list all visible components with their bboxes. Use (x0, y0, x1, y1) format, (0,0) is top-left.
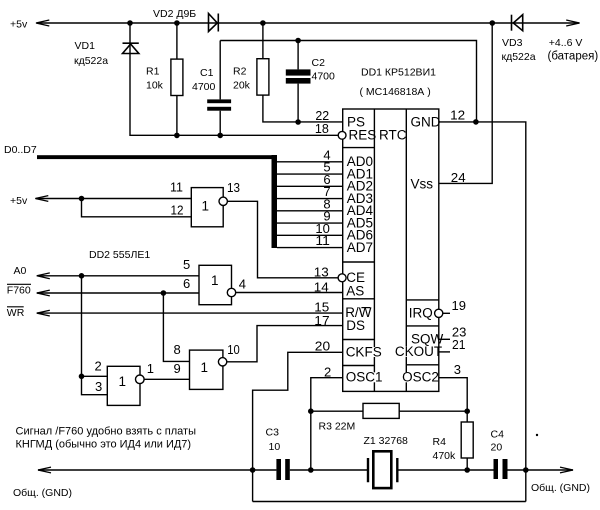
svg-text:DD1 КР512ВИ1: DD1 КР512ВИ1 (361, 67, 436, 79)
capacitor C1 (219, 41, 221, 136)
svg-text:C4: C4 (491, 429, 505, 441)
svg-text:18: 18 (315, 121, 329, 136)
wire CKFS pin20 to gnd (253, 352, 343, 501)
pin circle RES (338, 131, 346, 139)
resistor R4 (461, 422, 473, 458)
wire OSC1 pin2 (311, 378, 343, 470)
wire bottom GND run (38, 469, 573, 471)
svg-text:AD7: AD7 (347, 240, 373, 255)
svg-text:11: 11 (170, 179, 183, 194)
svg-text:+4..6 V: +4..6 V (549, 37, 583, 49)
svg-text:11: 11 (315, 233, 330, 248)
svg-text:12: 12 (171, 203, 184, 218)
wire R3 line (311, 410, 467, 412)
resistor R1 (176, 23, 178, 135)
wire PS pin22 line (263, 95, 343, 122)
svg-text:кд522а: кд522а (74, 55, 108, 67)
svg-text:4: 4 (239, 276, 246, 291)
svg-text:20: 20 (315, 338, 330, 353)
svg-text:IRQ: IRQ (409, 306, 433, 321)
svg-text:21: 21 (452, 337, 466, 352)
wire pin19 stub (443, 312, 450, 314)
svg-text:1: 1 (119, 374, 127, 389)
wire gateD out10 to DS pin17 (227, 326, 343, 362)
bus D0..D7 thick (37, 155, 277, 159)
svg-text:Общ. (GND): Общ. (GND) (531, 482, 590, 494)
svg-text:6: 6 (183, 276, 190, 291)
svg-text:VD1: VD1 (75, 40, 96, 52)
svg-text:Z1 32768: Z1 32768 (364, 435, 409, 447)
gate function labels (119, 198, 219, 389)
svg-text:C1: C1 (200, 67, 214, 79)
svg-text:CKOUT: CKOUT (395, 344, 442, 359)
svg-text:10: 10 (227, 342, 240, 357)
capacitor C2 (297, 41, 299, 123)
svg-text:10k: 10k (146, 80, 164, 92)
wire pin21 stub (439, 351, 450, 353)
wire A0 to gate input5 (37, 275, 199, 277)
svg-text:19: 19 (452, 298, 467, 313)
diode VD1 (123, 43, 139, 53)
crystal Z1 (368, 451, 397, 488)
svg-text:1: 1 (211, 273, 219, 288)
svg-text:КНГМД (обычно это ИД4 или ИД7): КНГМД (обычно это ИД4 или ИД7) (16, 439, 192, 451)
wire Vss pin24 riser (439, 23, 492, 183)
wire F760 to gate input6 (37, 292, 199, 294)
svg-text:R1: R1 (146, 66, 160, 78)
wire F760 branch to gateD input8 (163, 293, 189, 361)
svg-text:8: 8 (174, 342, 181, 357)
svg-text:R3 22M: R3 22M (319, 421, 356, 433)
svg-text:VD3: VD3 (502, 37, 523, 49)
wire A0 branch to gateC inputs 2,3 (82, 276, 108, 395)
wire gateA out13 to CE (227, 201, 338, 277)
svg-text:24: 24 (451, 170, 466, 185)
diode VD2 (209, 14, 219, 32)
wire gateC out1 to gateD input9 (144, 378, 189, 380)
svg-text:DD2 555ЛЕ1: DD2 555ЛЕ1 (89, 249, 150, 261)
svg-text:13: 13 (227, 180, 240, 195)
svg-text:кд522а: кд522а (502, 51, 536, 63)
wire gateB out4 to AS pin14 (236, 292, 343, 294)
svg-text:WR: WR (7, 307, 25, 319)
svg-text:R4: R4 (433, 436, 447, 448)
svg-text:CKFS: CKFS (346, 344, 382, 359)
pin circle IRQ (435, 309, 443, 317)
pin circle CE (338, 274, 346, 282)
svg-text:A0: A0 (14, 265, 27, 277)
svg-text:AS: AS (346, 284, 364, 299)
svg-text:DS: DS (346, 318, 365, 333)
svg-text:R2: R2 (233, 66, 247, 78)
wire GND pin12 (439, 122, 526, 502)
wire OSC2 pin3 (439, 378, 467, 422)
svg-text:470k: 470k (433, 450, 457, 462)
capacitor C2 plates (286, 69, 311, 75)
resistor R2 (262, 23, 264, 59)
svg-text:12: 12 (450, 108, 465, 123)
svg-text:1: 1 (201, 360, 209, 375)
svg-text:Сигнал /F760 удобно взять с пл: Сигнал /F760 удобно взять с платы (16, 426, 197, 438)
svg-text:9: 9 (174, 361, 181, 376)
wire +5v to gate inputs 11,12 (36, 199, 191, 217)
stray dot (536, 434, 538, 436)
svg-text:3: 3 (454, 362, 461, 377)
svg-text:RES: RES (349, 128, 377, 143)
svg-text:17: 17 (314, 313, 329, 328)
svg-text:CE: CE (346, 270, 365, 285)
capacitor C1 plates (37, 69, 508, 480)
wire C1C2 top to GND pin12 riser (220, 41, 476, 122)
overline for R/W's W (361, 307, 370, 309)
wire pin23 stub (439, 338, 450, 340)
wire RES pin18 line (130, 23, 338, 135)
svg-text:+5v: +5v (10, 195, 28, 207)
svg-text:5: 5 (183, 257, 190, 272)
svg-text:VD2 Д9Б: VD2 Д9Б (153, 8, 196, 20)
svg-text:F760: F760 (7, 285, 31, 297)
capacitor C3 plates (276, 459, 281, 480)
svg-text:D0..D7: D0..D7 (4, 144, 37, 156)
svg-text:Vss: Vss (411, 176, 434, 191)
svg-text:13: 13 (314, 265, 329, 280)
svg-text:3: 3 (95, 379, 102, 394)
gate DD2.2 U-B (199, 265, 232, 304)
svg-text:OSC2: OSC2 (402, 370, 439, 385)
capacitor C4 plates (494, 459, 499, 479)
wire bottom frame (253, 501, 526, 503)
svg-text:RTC: RTC (379, 128, 407, 143)
svg-text:Общ. (GND): Общ. (GND) (13, 487, 72, 499)
svg-text:(батарея): (батарея) (548, 51, 599, 63)
svg-text:20k: 20k (233, 80, 251, 92)
wires AD0-AD7 (277, 162, 343, 248)
svg-text:C3: C3 (266, 427, 280, 439)
svg-text:2: 2 (324, 365, 331, 380)
svg-text:4700: 4700 (192, 81, 216, 93)
diode VD3 (512, 15, 523, 31)
gate DD2.1 U-A (107, 131, 443, 405)
svg-text:14: 14 (314, 280, 329, 295)
svg-text:+5v: +5v (10, 19, 28, 31)
svg-text:4700: 4700 (312, 71, 336, 83)
svg-text:2: 2 (95, 358, 102, 373)
svg-text:GND: GND (411, 115, 441, 130)
svg-text:1: 1 (147, 361, 154, 376)
gate DD2.3 U-C (107, 366, 140, 405)
svg-text:20: 20 (491, 442, 503, 454)
svg-text:10: 10 (269, 441, 281, 453)
wire R4 bottom lead (466, 458, 468, 470)
svg-text:C2: C2 (312, 57, 326, 69)
resistor R3 (363, 403, 399, 418)
IC DD1 body (343, 109, 439, 391)
wire WR to R/W pin15 (37, 312, 343, 314)
svg-text:( МС146818А ): ( МС146818А ) (360, 86, 431, 98)
svg-text:OSC1: OSC1 (346, 370, 383, 385)
svg-text:1: 1 (202, 198, 210, 213)
wire top +5v rail (37, 22, 580, 24)
IC pin names (345, 114, 444, 384)
gate DD2.4 U-D (190, 350, 223, 389)
